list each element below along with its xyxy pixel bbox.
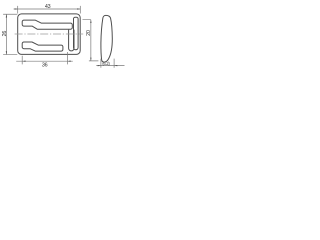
dim 36: dimension line	[16, 60, 73, 62]
top Z-slot	[22, 20, 72, 29]
bottom Z-slot	[22, 42, 63, 51]
right vertical slot A (upper)	[74, 17, 79, 50]
arrowheads dim 43	[15, 8, 18, 9]
dim 26: extension lines	[3, 14, 17, 54]
right vertical slot B (lower)	[69, 30, 74, 51]
dim 6.2: extension lines	[101, 59, 114, 68]
arrowheads dim 6.2	[98, 65, 101, 66]
svg-text:20: 20	[86, 30, 92, 36]
side view profile	[101, 15, 112, 62]
dim 43: extension lines	[18, 6, 81, 14]
svg-text:26: 26	[2, 31, 8, 37]
dim 26: dimension line	[5, 14, 7, 54]
buckle frame outline (front view)	[18, 14, 80, 55]
arrowheads dim 26	[6, 14, 7, 17]
dim 43: dimension line	[14, 8, 81, 10]
dim 6.2: dimension line	[96, 65, 124, 67]
svg-text:(6.2): (6.2)	[102, 61, 110, 66]
arrowheads dim 36	[22, 61, 25, 62]
arrowheads dim 20	[90, 20, 91, 23]
dim 20: extension lines	[83, 20, 99, 61]
dim 36: extension lines	[22, 52, 67, 64]
centerline	[15, 33, 84, 35]
dim 20: dimension line	[90, 20, 92, 61]
svg-text:43: 43	[45, 4, 51, 10]
svg-text:36: 36	[42, 62, 48, 68]
